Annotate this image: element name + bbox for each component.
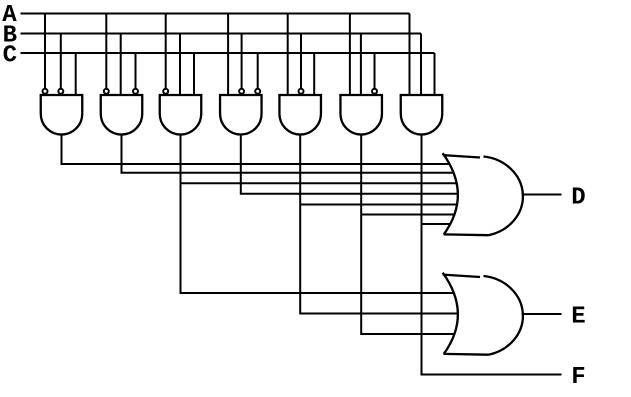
wire input B to gate U2 pin 2 — [120, 34, 122, 96]
wire input A to gate U4 pin 1 — [227, 14, 229, 96]
wire input C to gate U7 pin 3 — [434, 53, 436, 95]
wire input A to gate U3 pin 1 — [165, 14, 167, 96]
inverter bubble on gate U1 pin 2 — [58, 89, 63, 94]
wire input B to gate U5 pin 2 — [300, 34, 302, 96]
inverter bubble on gate U4 pin 3 — [255, 89, 260, 94]
node C input bus — [21, 52, 435, 54]
wire branch gate U7 to OR D input 7 — [422, 223, 463, 225]
wire input A to gate U5 pin 1 — [287, 14, 289, 96]
wire input B to gate U7 pin 2 — [420, 34, 422, 96]
OR gate E — [443, 274, 521, 354]
wire input B to gate U1 pin 2 — [60, 34, 62, 96]
wire input B to gate U6 pin 2 — [360, 34, 362, 96]
wire input B to gate U4 pin 2 — [241, 34, 243, 96]
wire input A to gate U2 pin 1 — [105, 14, 107, 96]
wire gate U2 output to OR D input 2 — [122, 135, 463, 173]
wire branch gate U3 to OR D input 3 — [181, 182, 463, 184]
wire gate U6 output down to OR E input 3 — [361, 135, 462, 335]
wire gate U5 output down to OR E input 2 — [300, 135, 467, 314]
wire input C to gate U6 pin 3 — [374, 53, 376, 95]
inverter bubble on gate U6 pin 3 — [372, 89, 377, 94]
node B input bus — [21, 33, 422, 35]
inverter bubble on gate U2 pin 1 — [104, 89, 109, 94]
wire OR E output — [522, 313, 562, 315]
inverter bubble on gate U3 pin 1 — [163, 89, 168, 94]
inverter bubble on gate U2 pin 3 — [133, 89, 138, 94]
svg-text:E: E — [571, 303, 585, 330]
wire input C to gate U2 pin 3 — [135, 53, 137, 95]
wire input A to gate U6 pin 1 — [349, 14, 351, 96]
wire input C to gate U1 pin 3 — [75, 53, 77, 95]
AND gate U7 — [401, 95, 443, 135]
AND gate U4 — [220, 95, 261, 134]
inverter bubble on gate U4 pin 2 — [239, 89, 244, 94]
AND gate U1 — [41, 95, 83, 134]
AND gate U6 — [340, 95, 382, 135]
wire input C to gate U4 pin 3 — [257, 53, 259, 95]
AND gate U2 — [101, 95, 143, 135]
wire input B to gate U3 pin 2 — [179, 34, 181, 96]
node A input bus — [21, 13, 410, 15]
wire OR D output — [522, 194, 562, 196]
AND gate U3 — [160, 95, 202, 134]
wire input C to gate U3 pin 3 — [193, 53, 195, 95]
inverter bubble on gate U5 pin 2 — [299, 89, 304, 94]
wire input A to gate U7 pin 1 — [409, 14, 411, 96]
wire input A to gate U1 pin 1 — [44, 14, 46, 96]
svg-text:D: D — [571, 184, 585, 211]
OR gate D — [443, 154, 521, 234]
AND gate U5 — [279, 95, 321, 135]
wire gate U1 output to OR D input 1 — [62, 135, 463, 165]
wire branch gate U6 to OR D input 6 — [361, 214, 462, 216]
inverter bubble on gate U1 pin 1 — [43, 89, 48, 94]
wire branch gate U5 to OR D input 5 — [300, 204, 462, 206]
svg-text:F: F — [571, 364, 585, 391]
svg-text:C: C — [3, 42, 17, 69]
wire input C to gate U5 pin 3 — [313, 53, 315, 95]
wire gate U4 output to OR D input 4 — [241, 135, 462, 194]
wire gate U3 output down to OR E input 1 — [181, 135, 463, 294]
wire gate U7 output down to output F — [422, 135, 562, 375]
